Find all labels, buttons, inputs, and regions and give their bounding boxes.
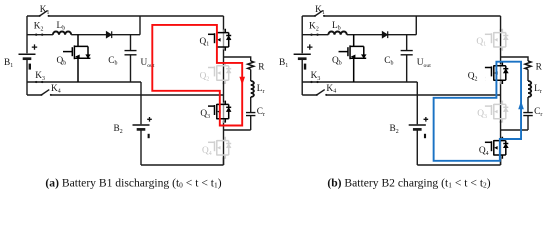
- svg-text:(a) Battery B1 discharging (t0: (a) Battery B1 discharging (t0 < t < t1): [45, 176, 221, 189]
- svg-text:(b) Battery B2 charging (t1 <: (b) Battery B2 charging (t1 < t < t2): [327, 176, 490, 189]
- svg-text:R: R: [258, 62, 265, 72]
- svg-text:R: R: [536, 62, 543, 72]
